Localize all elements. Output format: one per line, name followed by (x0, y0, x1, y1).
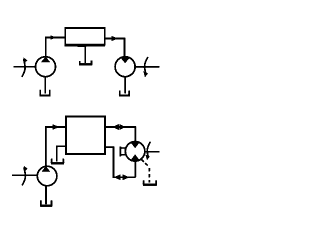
pump P2 circle (37, 166, 57, 186)
tank T4 below pump P2 (41, 200, 52, 205)
wire loop top R2 to motor M2 (105, 127, 135, 142)
wire motor M2 bottom down (134, 160, 136, 177)
wire R1 to motor M1 (105, 39, 125, 58)
pump P1 flow triangle (points up/out) (41, 57, 50, 63)
motor M1 flow triangle (points down/in) (120, 57, 130, 63)
dashed case drain vertical (148, 168, 150, 183)
motor M2 upper flow triangle (points in) (130, 142, 140, 148)
R1 drain port tick (78, 46, 85, 47)
tank T1 below pump P1 (40, 90, 50, 95)
motor M2 circle (125, 142, 145, 162)
double arrowhead left (bottom loop) (114, 174, 121, 180)
pump P2 flow triangle (points up/out) (42, 166, 51, 172)
wire R1 drain down (84, 45, 86, 63)
wire motor M1 return down (124, 77, 126, 94)
pump P2 rotation arrowhead (24, 166, 28, 172)
pump P1 rotation arrowhead (23, 57, 27, 63)
motor M2 right stub line (145, 151, 160, 153)
tank T6 case drain (144, 180, 157, 184)
motor M1 circle (115, 57, 135, 77)
arrowhead into R1 (50, 35, 56, 40)
pump P1 circle (36, 57, 56, 77)
pump P1 rotation arrow (22, 59, 25, 77)
wire loop bottom R2 to motor M2 (105, 147, 135, 177)
double arrowhead right (top loop) (119, 124, 126, 130)
double arrowhead right (bottom loop) (123, 174, 130, 180)
motor M1 rotation arrow (145, 57, 148, 75)
motor M1 output shaft (135, 66, 159, 68)
motor M2 output shaft (double line) (119, 146, 121, 156)
arrowhead to M1 (112, 36, 119, 41)
arrowhead into R2 (53, 124, 60, 130)
wire pump P1 suction down (44, 77, 46, 94)
pump P2 rotation arrow (22, 167, 25, 185)
transmission block R2 (66, 116, 105, 154)
pump P1 drive shaft (14, 66, 36, 68)
tank T2 below R1 (80, 60, 92, 63)
motor M1 rotation arrowhead (143, 71, 148, 78)
wire R2 case drain (57, 146, 66, 161)
motor M2 lower flow triangle (points in) (130, 154, 140, 160)
dashed case drain diagonal (141, 159, 148, 166)
tank T3 below motor M1 (120, 91, 129, 95)
motor M2 rotation arrow (147, 142, 150, 157)
wire pump P1 outlet to valve block R1 (46, 38, 65, 57)
wire pump P2 outlet to transmission block R2 (46, 127, 66, 166)
double arrowhead left (top loop) (112, 124, 118, 130)
pump P2 drive shaft (12, 174, 38, 176)
motor M2 rotation arrowhead (145, 155, 150, 161)
wire pump P2 suction down (45, 186, 47, 205)
R1 thick bottom edge (64, 45, 105, 47)
valve block R1 (65, 28, 105, 45)
tank T5 at R2 drain (52, 159, 64, 163)
